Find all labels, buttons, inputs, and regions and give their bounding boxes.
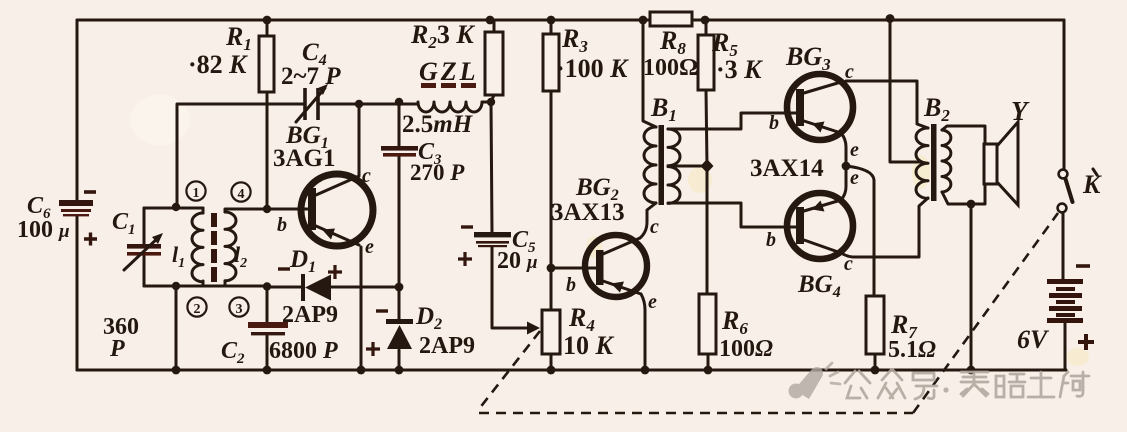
svg-text:c: c <box>844 253 853 275</box>
wire C2 leads <box>266 286 269 370</box>
resistor R1 82K <box>259 36 274 92</box>
svg-text:1: 1 <box>193 186 200 201</box>
node terminal 2 <box>187 297 206 317</box>
svg-text:100Ω: 100Ω <box>643 55 698 81</box>
svg-text:R23 K: R23 K <box>410 20 475 52</box>
wire emitters node to R7 <box>846 166 874 296</box>
svg-text:270 P: 270 P <box>410 160 465 185</box>
junction dot node 1 tank top <box>172 203 180 211</box>
wire BG4 collector to B2 primary bottom <box>841 198 928 257</box>
dashed gang line bottom run <box>479 412 913 415</box>
speaker Y driver <box>984 144 997 184</box>
junction dot BG1 collector node <box>355 100 363 108</box>
svg-text:20 μ: 20 μ <box>497 248 538 274</box>
junction dot speaker return <box>967 200 976 209</box>
svg-text:Y: Y <box>1011 96 1030 126</box>
svg-text:3: 3 <box>236 302 243 317</box>
svg-text:2AP9: 2AP9 <box>282 302 338 328</box>
svg-text:2.5mH: 2.5mH <box>402 111 474 138</box>
wire BG1 collector up <box>358 104 361 176</box>
wire B1 secondary bottom lead to BG4 base <box>668 203 796 227</box>
node terminal 3 <box>229 297 248 317</box>
junction dot R1 to base wire <box>263 205 271 213</box>
wire BG2 base lead <box>551 267 596 270</box>
inductor L2 oscillator coil secondary <box>225 212 236 281</box>
wire R3 leads <box>550 20 553 268</box>
svg-text:b: b <box>769 112 779 134</box>
arrowhead R4 wiper <box>527 322 540 335</box>
switch K <box>1058 169 1097 212</box>
svg-text:·100 K: ·100 K <box>556 54 629 83</box>
wire R7 bottom lead <box>874 354 877 370</box>
transformer B1 core <box>659 125 665 205</box>
transistor BG2 3AX13 <box>585 235 647 297</box>
wire BG1 emitter to ground <box>360 247 363 370</box>
transformer B2 secondary winding <box>942 130 951 192</box>
junction dot GZL left node <box>395 98 403 106</box>
capacitor C6 100u electrolytic <box>59 192 97 246</box>
wire D1 branch <box>267 286 399 289</box>
svg-text:6800 P: 6800 P <box>269 338 338 364</box>
wire C5 bottom to R4 wiper arrow <box>492 247 527 328</box>
junction dot BG3/BG4 emitter node <box>842 162 851 171</box>
resistor R7 5.1ohm <box>866 296 884 354</box>
svg-text:c: c <box>650 216 659 238</box>
wire tank circuit left (C1 leads) <box>143 208 146 286</box>
wire left border <box>76 20 79 370</box>
wire L2 bottom lead <box>224 281 227 286</box>
wire R1 top lead <box>266 20 269 36</box>
wire R5 leads <box>706 20 707 166</box>
inductor L1 oscillator coil primary <box>192 213 203 282</box>
capacitor C4 2~7P trimmer <box>296 84 328 122</box>
wire C4 feedback line left segment <box>177 104 305 206</box>
svg-text:2AP9: 2AP9 <box>419 333 475 359</box>
svg-text:6V: 6V <box>1017 325 1050 354</box>
svg-text:·3 K: ·3 K <box>716 55 763 84</box>
svg-text:b: b <box>766 229 776 251</box>
wire switch to battery <box>1062 213 1065 279</box>
wire R1 bottom to BG1 base node <box>266 92 269 209</box>
wire C3 leads on 399 line <box>398 102 401 287</box>
resistor R3 100K <box>543 34 559 91</box>
capacitor C3 270P <box>381 146 418 157</box>
diode D1 2AP9 <box>278 265 342 301</box>
svg-text:P: P <box>109 336 125 362</box>
svg-text:e: e <box>850 139 859 161</box>
node terminal 4 <box>231 182 250 202</box>
wire D2 leads <box>398 287 401 370</box>
capacitor C2 6800P <box>248 322 288 335</box>
wire R5/B1 tap node down to R6 <box>706 166 709 294</box>
junction dots bottom rail <box>172 366 181 375</box>
wire junction to C5 <box>491 102 492 232</box>
wire speaker return to ground <box>970 204 973 370</box>
wire top rail to B2 center tap <box>890 20 921 162</box>
wire BG2 emitter to ground <box>641 294 645 370</box>
watermark text 公众号·泰晤士何 <box>845 370 1089 399</box>
wire C4 to BG1 collector node <box>318 103 359 106</box>
svg-text:·82 K: ·82 K <box>188 50 248 79</box>
junction dot tank bottom to C2/D1 <box>263 282 271 290</box>
svg-text:e: e <box>850 167 859 189</box>
resistor R2 3K <box>485 32 503 95</box>
svg-text:3AG1: 3AG1 <box>273 145 336 172</box>
speaker Y cone <box>997 122 1018 205</box>
wire B2 secondary to speaker loop <box>942 126 985 204</box>
transistor BG1 3AG1 <box>301 174 373 246</box>
wire B1 center tap <box>671 165 707 168</box>
svg-text:b: b <box>277 214 287 236</box>
wire BG2 collector to B1 primary <box>640 203 656 238</box>
junction dot D1/D2/C3 node <box>395 283 404 292</box>
wire battery plus to ground rail <box>1064 322 1067 370</box>
wire bottom ground rail <box>77 369 1066 372</box>
svg-text:4: 4 <box>238 187 245 202</box>
svg-text:2~7 P: 2~7 P <box>281 63 341 90</box>
svg-text:e: e <box>365 236 374 258</box>
resistor R4 10K potentiometer <box>542 310 560 354</box>
capacitor C5 20u electrolytic <box>458 227 511 266</box>
diode D2 2AP9 <box>366 311 413 356</box>
capacitor C1 360P variable <box>124 233 163 270</box>
junction dot B1 center tap node <box>701 159 714 173</box>
transformer B1 primary winding <box>644 127 656 203</box>
junction dot BG2 base node <box>547 264 556 273</box>
svg-text:100Ω: 100Ω <box>719 336 773 362</box>
svg-text:c: c <box>362 165 371 187</box>
wire top rail to B1 primary top <box>643 20 656 127</box>
wire BG3 collector to B2 primary top <box>846 81 928 128</box>
node terminal 1 <box>186 181 205 201</box>
svg-text:K: K <box>1082 170 1102 199</box>
transistor BG3 3AX14 upper <box>787 74 853 140</box>
wire GZL right to R2 bottom junction <box>482 101 491 104</box>
svg-text:10 K: 10 K <box>563 331 615 360</box>
wire BG3 emitter down <box>841 133 846 166</box>
battery 6V <box>1047 266 1094 350</box>
svg-text:c: c <box>845 61 854 83</box>
wire BG4 emitter up <box>841 166 846 200</box>
wire B1 secondary top lead to BG3 base <box>668 113 796 129</box>
svg-text:3AX14: 3AX14 <box>750 155 824 182</box>
wire R6 bottom lead <box>707 354 710 370</box>
transformer B1 secondary winding <box>668 129 680 203</box>
svg-text:3AX13: 3AX13 <box>551 199 625 226</box>
junction dot R2/GZL/C5 node <box>487 98 495 106</box>
wire L2 top to BG1 base <box>225 209 308 212</box>
junction dots top rail <box>263 16 272 25</box>
resistor R6 100ohm <box>699 294 716 354</box>
inductor GZL 2.5mH choke <box>418 83 482 112</box>
svg-text:100 μ: 100 μ <box>17 217 70 243</box>
svg-text:e: e <box>648 291 657 313</box>
wire tank circuit top <box>144 207 203 210</box>
transformer B2 primary winding <box>916 128 928 198</box>
svg-text:b: b <box>566 274 576 296</box>
watermark megaphone icon <box>789 363 841 399</box>
dashed gang line R4 to switch K <box>479 331 540 409</box>
svg-text:GZL: GZL <box>419 57 479 86</box>
dashed gang line up to switch <box>913 213 1058 413</box>
resistor R8 100ohm (horizontal, top rail) <box>650 12 692 26</box>
wire node 2 to ground rail <box>175 286 178 370</box>
resistor R5 3K <box>698 35 714 90</box>
wire R4 leads <box>550 268 553 370</box>
svg-text:5.1Ω: 5.1Ω <box>888 337 936 363</box>
wire R2 leads <box>491 20 494 102</box>
wire L1 leads <box>202 208 205 286</box>
transformer B2 core <box>931 124 937 201</box>
wire tank circuit bottom <box>144 285 267 288</box>
core of L1/L2 (dashed bar) <box>211 213 217 282</box>
svg-text:2: 2 <box>194 302 201 317</box>
transistor BG4 3AX14 lower <box>787 193 853 259</box>
wire right border to switch <box>1063 20 1066 169</box>
wire top supply rail <box>77 19 1064 22</box>
wire BG1 collector junction to GZL <box>359 103 418 106</box>
